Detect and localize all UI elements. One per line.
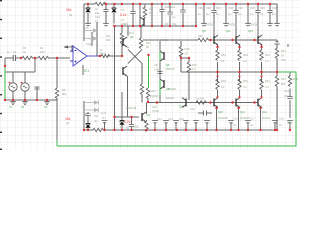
svg-text:470p: 470p [86,42,92,46]
svg-text:100n: 100n [154,68,160,72]
svg-text:C16: C16 [233,117,238,121]
svg-text:R4: R4 [149,11,153,15]
svg-text:V1: V1 [9,105,13,109]
svg-text:0.2v: 0.2v [120,13,127,17]
svg-text:C22: C22 [250,6,255,10]
svg-text:Q13: Q13 [248,29,253,33]
svg-text:8k6: 8k6 [62,92,67,96]
svg-text:C13: C13 [168,117,173,121]
svg-text:R21: R21 [243,79,248,83]
svg-text:R23: R23 [281,49,286,53]
svg-text:0.4: 0.4 [265,59,269,63]
svg-text:R(R12): R(R12) [150,94,158,98]
svg-text:R20: R20 [243,53,248,57]
svg-text:1m: 1m [216,12,220,16]
svg-text:0.1: 0.1 [221,85,225,89]
svg-text:BDC19: BDC19 [160,38,169,42]
svg-text:P/R: P/R [198,34,202,38]
svg-text:2m: 2m [272,12,276,16]
svg-text:C12: C12 [190,107,195,111]
svg-text:BDC19: BDC19 [166,67,175,71]
svg-text:10k: 10k [124,22,129,26]
svg-text:C21: C21 [216,6,221,10]
svg-text:15v: 15v [65,117,71,121]
svg-text:Q14: Q14 [262,110,267,114]
svg-text:0.4: 0.4 [243,85,247,89]
svg-text:C16: C16 [95,15,100,19]
svg-text:15v: 15v [66,8,72,12]
svg-text:Q5: Q5 [166,63,170,67]
svg-text:0.1: 0.1 [221,59,225,63]
svg-text:19p: 19p [172,22,177,26]
svg-text:1N4 414: 1N4 414 [165,5,175,9]
svg-text:2N4C4: 2N4C4 [262,116,271,120]
svg-text:16v: 16v [95,11,100,15]
svg-text:2m: 2m [279,123,283,127]
svg-text:C18: C18 [228,6,233,10]
svg-text:V5: V5 [287,121,291,125]
svg-text:R9: R9 [62,88,66,92]
svg-text:IC1: IC1 [84,69,89,73]
svg-text:2N4C48: 2N4C48 [218,116,228,120]
svg-text:Q6: Q6 [166,87,170,91]
svg-text:0.4: 0.4 [243,59,247,63]
svg-text:750: 750 [281,58,286,62]
svg-text:Q8: Q8 [202,29,206,33]
svg-text:R1: R1 [23,46,27,50]
svg-text:D4: D4 [126,126,130,130]
svg-text:R17: R17 [151,89,156,93]
svg-text:R24: R24 [281,77,286,81]
svg-text:C23: C23 [260,6,265,10]
svg-text:2N5C84: 2N5C84 [227,23,237,27]
svg-text:1m: 1m [250,12,254,16]
svg-text:C1: C1 [13,50,17,54]
svg-text:2N4C48: 2N4C48 [240,116,250,120]
svg-text:1m: 1m [238,12,242,16]
svg-text:R22: R22 [265,53,270,57]
svg-text:0.4: 0.4 [265,85,269,89]
svg-text:2N5C84: 2N5C84 [249,23,259,27]
svg-text:16v: 16v [94,114,99,118]
svg-text:BD140: BD140 [166,96,174,100]
svg-text:10k: 10k [149,7,154,11]
svg-text:V3: V3 [44,105,48,109]
svg-text:C18: C18 [279,117,284,121]
svg-text:Q9: Q9 [179,105,183,109]
svg-text:C14: C14 [157,117,162,121]
svg-text:1du: 1du [83,112,88,116]
svg-text:2m: 2m [233,123,237,127]
svg-text:R18: R18 [221,79,226,83]
svg-text:1m: 1m [260,12,264,16]
svg-text:Q3: Q3 [130,35,134,39]
svg-text:1m: 1m [172,15,176,19]
svg-text:C(C9): C(C9) [152,109,159,113]
svg-text:(5): (5) [69,13,72,17]
svg-text:0.2v: 0.2v [124,120,131,124]
svg-text:C33: C33 [198,6,203,10]
svg-text:C8: C8 [154,63,158,67]
svg-text:V2: V2 [21,105,25,109]
svg-text:C9: C9 [165,22,169,26]
svg-text:R13: R13 [146,41,151,45]
svg-text:C20: C20 [206,6,211,10]
svg-text:Q4: Q4 [147,113,151,117]
svg-text:200: 200 [134,125,139,129]
svg-text:Q10: Q10 [218,110,223,114]
svg-text:MPSA18: MPSA18 [126,106,137,110]
svg-text:1O: 1O [121,8,124,12]
svg-text:1,9: 1,9 [192,67,196,71]
svg-text:8k6: 8k6 [281,82,286,86]
svg-text:C17: C17 [250,117,255,121]
svg-text:Q11: Q11 [226,29,231,33]
svg-text:C13: C13 [284,89,289,93]
svg-text:6R8: 6R8 [293,77,298,81]
svg-text:1m: 1m [228,12,232,16]
svg-text:1m4: 1m4 [101,111,107,115]
svg-text:2m: 2m [250,123,254,127]
svg-text:R10: R10 [106,38,111,42]
svg-text:1k R24: 1k R24 [196,97,205,101]
svg-text:C10: C10 [152,105,157,109]
svg-text:2m: 2m [206,12,210,16]
svg-text:10k: 10k [106,34,111,38]
svg-text:C7: C7 [121,18,125,22]
svg-text:240: 240 [40,50,45,54]
svg-text:Q12: Q12 [240,110,245,114]
svg-text:BPC3: BPC3 [127,31,134,35]
svg-text:(0): (0) [66,121,69,125]
svg-text:C24: C24 [272,6,277,10]
svg-text:C10: C10 [179,117,184,121]
svg-text:R2: R2 [40,46,44,50]
svg-text:R14: R14 [100,52,105,56]
svg-text:FB: FB [120,125,124,129]
svg-text:R16: R16 [192,63,197,67]
svg-text:R23: R23 [265,79,270,83]
svg-text:R15: R15 [185,47,190,51]
svg-text:(1): (1) [94,119,97,123]
svg-text:R19: R19 [221,53,226,57]
svg-text:C19: C19 [238,6,243,10]
svg-text:10n: 10n [284,94,289,98]
svg-text:4.7k: 4.7k [84,26,90,30]
svg-text:2N5C84: 2N5C84 [205,23,215,27]
svg-text:2m: 2m [102,116,106,120]
